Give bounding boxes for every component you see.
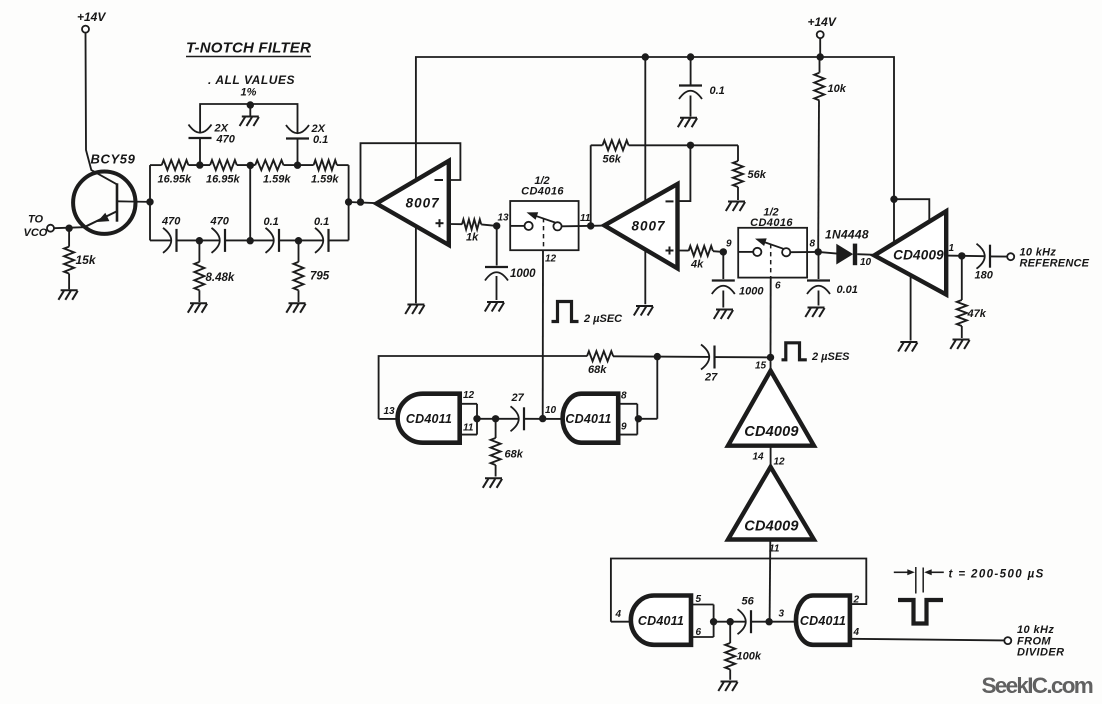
svg-text:56: 56 [742, 596, 755, 608]
wire U3 supply branch [894, 199, 929, 224]
ground under op-amp U1 [405, 305, 424, 315]
svg-text:100k: 100k [737, 651, 762, 663]
resistor 795 [294, 240, 330, 302]
wire +14V to transistor collector [86, 33, 117, 185]
svg-text:0.1: 0.1 [314, 216, 329, 228]
node G1 input junctions [473, 415, 480, 422]
svg-text:8007: 8007 [406, 196, 441, 211]
wire U3 output [946, 255, 984, 258]
wire filter output to op-amp U1 [349, 202, 378, 203]
pin label 9 (G2) [621, 421, 627, 432]
svg-text:0.1: 0.1 [313, 134, 328, 146]
ground under 795 [286, 303, 305, 313]
svg-text:8: 8 [621, 390, 627, 401]
wire S1 to op-amp U2 [579, 225, 605, 228]
node bridge center [247, 101, 254, 108]
svg-text:9: 9 [726, 239, 732, 250]
svg-text:8.48k: 8.48k [206, 272, 235, 284]
svg-text:11: 11 [463, 423, 474, 434]
ground under op-amp U2 [634, 306, 653, 316]
wire G3 input bracket [691, 605, 746, 638]
capacitor 470 (second bottom) [210, 216, 230, 253]
resistor 4k [678, 246, 724, 271]
wire U4 to U5 [770, 444, 772, 469]
watermark SeekIC.com [982, 673, 1093, 698]
wire gate G1 output lead [379, 414, 400, 419]
svg-text:795: 795 [310, 271, 330, 283]
ground under 1000 [485, 302, 504, 312]
op-amp U1 8007 [376, 161, 448, 245]
svg-text:CD4009: CD4009 [893, 248, 944, 263]
svg-text:2: 2 [853, 595, 860, 606]
svg-text:CD4016: CD4016 [750, 217, 793, 229]
svg-text:0.1: 0.1 [710, 85, 725, 97]
node feedback junction [654, 353, 661, 360]
label BCY59 [91, 152, 136, 167]
capacitor 56 [738, 596, 755, 635]
svg-text:1.59k: 1.59k [263, 174, 291, 186]
node bottom row dots [196, 237, 203, 244]
resistor 100k [725, 622, 762, 680]
pin label 11 (U5) [769, 544, 780, 555]
resistor 15k [64, 228, 97, 289]
pin label 4 (G4 output) [853, 627, 860, 638]
svg-text:1000: 1000 [510, 268, 536, 280]
ground under U3 [898, 342, 917, 352]
svg-text:10 kHz: 10 kHz [1017, 624, 1054, 636]
node 13 [493, 222, 500, 229]
label U5 CD4009 [744, 519, 798, 535]
wire S2 control line down [770, 278, 772, 358]
svg-text:BCY59: BCY59 [91, 152, 136, 167]
node 15 [767, 354, 774, 361]
svg-text:CD4009: CD4009 [744, 424, 798, 440]
pin label 8 (S2) [810, 239, 816, 250]
title T-NOTCH FILTER [186, 40, 311, 57]
svg-text:1000: 1000 [739, 286, 764, 298]
wire op-amp U1 negative-rail drop [415, 181, 417, 304]
capacitor 180 [975, 244, 994, 282]
node U3 supply dot [890, 196, 897, 203]
svg-text:11: 11 [580, 213, 591, 224]
svg-text:68k: 68k [588, 364, 607, 376]
resistor 10k [814, 57, 846, 252]
svg-text:12: 12 [774, 457, 786, 468]
wire bottom oscillator top feedback [611, 559, 866, 622]
node filter taps [146, 198, 153, 205]
svg-text:8007: 8007 [631, 219, 666, 234]
capacitor 27 (between gates) [511, 392, 525, 431]
svg-text:6: 6 [775, 281, 781, 292]
annotation t = 200-500 uS [894, 567, 1045, 594]
svg-text:CD4011: CD4011 [406, 412, 452, 426]
svg-text:0.1: 0.1 [264, 216, 279, 228]
svg-text:CD4016: CD4016 [521, 186, 564, 198]
wire TO VCO to emitter node [54, 227, 85, 228]
node G3 bracket junction [710, 618, 717, 625]
pin label 11 (S1) [580, 213, 591, 224]
inverter U4 CD4009 [728, 371, 814, 446]
svg-text:VCO: VCO [24, 227, 48, 239]
svg-text:REFERENCE: REFERENCE [1020, 258, 1090, 270]
svg-text:6: 6 [696, 627, 702, 638]
ground under 47k [950, 340, 969, 350]
svg-text:5: 5 [696, 594, 702, 605]
pin label 5 (G3) [696, 594, 702, 605]
ground under 0.1 bypass [678, 118, 697, 128]
svg-text:3: 3 [779, 609, 785, 620]
wire +14V stem [819, 38, 821, 57]
wire U2 minus input stub [678, 145, 690, 201]
ground under 68k [483, 478, 502, 488]
label G1 CD4011 [406, 412, 452, 426]
resistor 68k (feedback) [587, 351, 613, 376]
svg-text:1N4448: 1N4448 [825, 228, 869, 242]
wire left edge of filter [149, 165, 151, 240]
pin label 13 (G1) [384, 406, 396, 417]
waveform 2 uSEC pulse [552, 302, 624, 326]
wire U5 output down [769, 540, 772, 622]
pin label 1 (U3 output) [949, 243, 955, 254]
wire filter middle vertical [249, 165, 251, 240]
terminal 10 kHz REFERENCE [1007, 247, 1089, 270]
svg-text:4k: 4k [690, 259, 704, 271]
svg-text:t = 200-500 µS: t = 200-500 µS [949, 569, 1045, 581]
wire top supply bus [416, 57, 894, 246]
svg-text:13: 13 [498, 213, 510, 224]
label U4 CD4009 [744, 424, 798, 440]
pin label 12 (G1) [463, 390, 475, 401]
wire G4 output to divider terminal [850, 639, 1004, 641]
pin label 3 (G4) [779, 609, 785, 620]
resistor 47k [957, 256, 987, 338]
NAND gate G3 CD4011 [631, 596, 691, 645]
op-amp U2 8007 [604, 184, 677, 268]
svg-text:T-NOTCH FILTER: T-NOTCH FILTER [186, 40, 311, 57]
label U2 8007 [631, 219, 666, 234]
ground under 15k [58, 290, 77, 300]
ground under 56k [726, 202, 745, 212]
note ALL VALUES 1% [208, 73, 295, 99]
svg-text:470: 470 [210, 216, 230, 228]
pin label 10 (G2) [545, 405, 557, 416]
capacitor 1000 (at pin 9) [712, 252, 765, 308]
svg-text:+14V: +14V [77, 10, 106, 24]
svg-text:16.95k: 16.95k [206, 174, 241, 186]
pin label 14 (U4) [753, 452, 765, 463]
NAND gate G2 CD4011 [563, 394, 619, 443]
capacitor 470 (first bottom) [161, 216, 181, 253]
svg-text:15: 15 [755, 361, 767, 372]
ground under 8.48k [188, 303, 207, 313]
U1 minus input mark [435, 179, 444, 181]
waveform 2 uSES pulse [782, 343, 851, 363]
node U1 feedback junction [357, 198, 364, 205]
diode 1N4448 [818, 244, 875, 266]
pin label 12 (S1) [545, 254, 557, 265]
node output junction [958, 252, 965, 259]
inverter U5 CD4009 [728, 467, 814, 540]
label 1/2 CD4016 (S1) [521, 175, 564, 198]
label G3 CD4011 [638, 614, 684, 628]
label U3 CD4009 [893, 248, 944, 263]
svg-text:CD4011: CD4011 [800, 614, 846, 628]
ground under 0.01 [805, 308, 824, 318]
wire G1 input bracket [460, 404, 519, 435]
NAND gate G1 CD4011 [398, 394, 460, 443]
ground stub at 1% point [240, 104, 259, 126]
svg-text:13: 13 [384, 406, 396, 417]
svg-text:470: 470 [161, 216, 181, 228]
pin label 10 (diode to U3) [860, 257, 872, 268]
wire G2 input bracket [618, 404, 657, 435]
power terminal +14V (left) [77, 10, 106, 33]
svg-text:8: 8 [810, 239, 816, 250]
resistor 68k to ground [491, 419, 524, 477]
svg-text:27: 27 [704, 372, 718, 384]
svg-text:. ALL VALUES: . ALL VALUES [208, 73, 295, 87]
resistor 16.95k (first) [158, 160, 193, 185]
pin label 2 (G4) [853, 595, 860, 606]
svg-text:56k: 56k [603, 154, 622, 166]
svg-text:12: 12 [463, 390, 475, 401]
wire S2 pin8 to diode node [807, 251, 818, 253]
resistor 56k to ground [691, 145, 767, 200]
node 11 [587, 222, 594, 229]
ground under 1000 (pin 9) [714, 310, 733, 320]
node 8 [815, 248, 822, 255]
pin label 12 (U5) [774, 457, 786, 468]
wire U3 ground pin [910, 272, 912, 341]
node bus junctions [642, 53, 649, 60]
wire U2 negative-rail drop [644, 57, 646, 304]
svg-text:CD4011: CD4011 [565, 412, 611, 426]
pin label 6 (S2) [775, 281, 781, 292]
node 100k junction [727, 618, 734, 625]
ground under 100k [718, 682, 737, 692]
svg-text:470: 470 [216, 134, 236, 146]
wire G2 bracket up to feedback [656, 357, 658, 419]
svg-text:4: 4 [615, 609, 622, 620]
pin label 11 (G1) [463, 423, 474, 434]
svg-text:0.01: 0.01 [837, 284, 858, 296]
resistor 8.48k [194, 240, 234, 302]
svg-text:CD4009: CD4009 [744, 519, 798, 535]
svg-text:9: 9 [621, 421, 627, 432]
wire U1 feedback loop [361, 143, 461, 202]
capacitor 0.1 (first bottom) [264, 216, 280, 253]
svg-text:47k: 47k [967, 308, 987, 320]
wire cap 27 to node 10 [524, 418, 564, 420]
analog switch S1 1/2 CD4016 [510, 201, 578, 250]
pin label 4 (G3) [615, 609, 622, 620]
pin label 6 (G3) [696, 627, 702, 638]
resistor 1.59k (first) [255, 160, 291, 185]
svg-text:12: 12 [545, 254, 557, 265]
svg-text:2 µSES: 2 µSES [811, 351, 850, 363]
svg-text:10k: 10k [828, 83, 847, 95]
svg-text:56k: 56k [748, 169, 767, 181]
label G4 CD4011 [800, 614, 846, 628]
label 1/2 CD4016 (S2) [750, 207, 793, 230]
label 1N4448 [825, 228, 869, 242]
wire node 15 to U4 [770, 357, 772, 373]
svg-text:2 µSEC: 2 µSEC [583, 313, 623, 325]
node 56k junction [687, 142, 694, 149]
wire top resistor row [150, 164, 349, 166]
capacitor 0.01 [807, 252, 858, 306]
node 3 [765, 618, 772, 625]
svg-text:1.59k: 1.59k [311, 174, 339, 186]
capacitor 0.1 (second bottom) [314, 216, 329, 253]
svg-text:68k: 68k [505, 449, 524, 461]
capacitor 0.1 bypass [679, 57, 725, 117]
svg-text:16.95k: 16.95k [158, 174, 193, 186]
resistor 1k [449, 219, 497, 243]
pin label 9 [726, 239, 732, 250]
svg-text:15k: 15k [76, 253, 97, 267]
capacitor 2X 0.1 [286, 123, 328, 165]
label G2 CD4011 [565, 412, 611, 426]
svg-text:27: 27 [511, 392, 525, 404]
analog switch S2 1/2 CD4016 [738, 228, 807, 278]
inverter U3 CD4009 [874, 211, 946, 294]
svg-text:4: 4 [853, 627, 860, 638]
node emitter junction [65, 225, 72, 232]
terminal TO VCO [24, 214, 55, 240]
waveform negative pulse [898, 600, 943, 624]
svg-text:1: 1 [949, 243, 955, 254]
pin label 13 [498, 213, 510, 224]
wire top cap bridge [200, 104, 297, 134]
resistor 16.95k (second) [206, 160, 241, 185]
capacitor 2X 470 [189, 123, 236, 166]
node 10 [539, 415, 546, 422]
svg-text:14: 14 [753, 452, 765, 463]
wire S1 control line down [542, 250, 544, 418]
wire G3 output lead [611, 621, 633, 623]
wire bottom capacitor row [150, 239, 349, 241]
terminal 10 kHz FROM DIVIDER [1004, 624, 1064, 659]
resistor 56k feedback [591, 140, 691, 226]
U1 plus input mark [436, 219, 444, 227]
pin label 8 (G2) [621, 390, 627, 401]
node G2 bracket junction [635, 415, 642, 422]
svg-text:1%: 1% [241, 87, 257, 99]
svg-text:CD4011: CD4011 [638, 614, 684, 628]
node top row dots [196, 161, 203, 168]
svg-text:1k: 1k [466, 232, 479, 244]
wire right edge of filter [348, 165, 350, 240]
svg-text:10: 10 [545, 405, 557, 416]
wire to reference terminal [990, 255, 1007, 257]
U2 plus input mark [666, 247, 674, 255]
svg-text:+14V: +14V [808, 15, 837, 29]
capacitor 1000 (at node 13) [485, 226, 536, 300]
resistor 1.59k (second) [311, 160, 339, 185]
node 9 [720, 248, 727, 255]
label U1 8007 [406, 196, 441, 211]
pin label 15 [755, 361, 767, 372]
svg-text:10: 10 [860, 257, 872, 268]
U2 minus input mark [666, 200, 674, 202]
capacitor 27 (to node 15) [701, 345, 718, 384]
wire cap 56 to node 3 [751, 621, 797, 623]
wire oscillator top feedback [379, 356, 709, 414]
svg-text:SeekIC.com: SeekIC.com [982, 673, 1093, 698]
NAND gate G4 CD4011 [796, 596, 850, 645]
svg-text:180: 180 [975, 270, 994, 282]
svg-text:TO: TO [28, 214, 44, 226]
power terminal +14V (right) [808, 15, 837, 38]
svg-text:DIVIDER: DIVIDER [1017, 647, 1064, 659]
transistor Q1 BCY59 [73, 172, 150, 234]
wire cap 27 to node 15 [715, 356, 771, 358]
